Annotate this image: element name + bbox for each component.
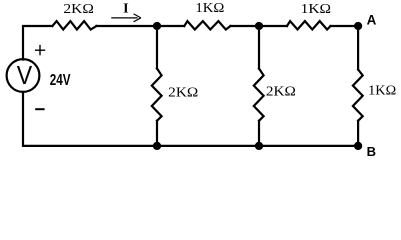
polarity minus mark — [35, 108, 44, 110]
svg-text:2KΩ: 2KΩ — [168, 86, 198, 101]
wire: node N2 to R3 — [259, 25, 287, 27]
wire: node N1 down to R4 — [156, 26, 158, 69]
svg-text:A: A — [367, 12, 377, 27]
current arrow I shaft and head — [111, 14, 141, 22]
polarity plus mark — [35, 45, 45, 55]
wire: R6 down to node B — [357, 121, 359, 146]
svg-text:B: B — [367, 144, 376, 159]
wire: node A down to R6 — [357, 26, 359, 70]
wire: R1 to node N1 — [96, 25, 157, 27]
junction dot node N1 top — [153, 22, 161, 30]
wire: node N2 down to R5 — [258, 26, 260, 69]
wire: R5 down to bottom node — [258, 121, 260, 146]
junction dot node A — [354, 22, 362, 30]
svg-text:V: V — [17, 60, 33, 90]
resistor R3 1KΩ horizontal right — [287, 21, 331, 29]
wire: bottom rail right segment to node B — [259, 145, 358, 147]
wire: source positive lead up to top-left corner — [23, 26, 52, 60]
junction dot node N2 top — [255, 22, 263, 30]
wire: node N1 to R2 — [157, 25, 184, 27]
junction dot bottom below N2 — [255, 142, 263, 150]
svg-text:2KΩ: 2KΩ — [266, 85, 296, 100]
svg-text:1KΩ: 1KΩ — [368, 84, 396, 99]
svg-text:2KΩ: 2KΩ — [63, 2, 94, 17]
svg-text:24V: 24V — [50, 72, 71, 89]
wire: bottom rail middle segment — [157, 145, 259, 147]
junction dot bottom below N1 — [153, 142, 161, 150]
wire: R3 to node A — [331, 25, 359, 27]
svg-text:1KΩ: 1KΩ — [301, 2, 332, 17]
resistor R2 1KΩ horizontal middle — [184, 21, 230, 29]
wire: R4 down to bottom node — [156, 121, 158, 146]
resistor R6 1KΩ vertical right — [353, 70, 363, 121]
junction dot node B — [354, 142, 362, 150]
resistor R4 2KΩ vertical left — [152, 69, 162, 121]
resistor R5 2KΩ vertical middle — [254, 69, 264, 121]
wire: source negative lead down to bottom-left corner — [23, 92, 157, 146]
wire: R2 to node N2 — [231, 25, 260, 27]
resistor R1 2KΩ horizontal top-left — [52, 21, 96, 29]
svg-text:1KΩ: 1KΩ — [195, 1, 224, 16]
svg-text:I: I — [123, 2, 128, 17]
voltage source V1 circle — [7, 59, 40, 92]
